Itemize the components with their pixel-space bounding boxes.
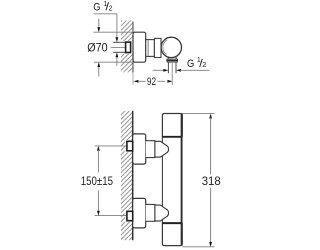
body section A (top view) — [146, 40, 155, 57]
outlet neck — [168, 56, 176, 59]
150 ext line bottom — [95, 215, 127, 217]
bottom cap joint thick line — [162, 222, 182, 224]
wall face extension line for 92 dim — [132, 72, 134, 85]
body section A shading line — [147, 40, 149, 56]
318 ext line top — [182, 112, 214, 114]
G1/2 outlet arrows — [153, 69, 165, 71]
150 dim line upper + arrow up — [97, 146, 100, 151]
outlet center line — [171, 62, 173, 85]
cylinder bottom cap — [162, 223, 182, 246]
outlet pipe — [167, 62, 169, 73]
318 ext line bottom — [182, 246, 214, 248]
bottom union nut (rounded) — [155, 205, 169, 221]
318 dim line upper + arrow up — [209, 114, 212, 119]
cylinder top cap — [162, 114, 182, 137]
G1/2 leader: vertical + arrow down onto pipe — [116, 14, 118, 39]
svg-text:1: 1 — [197, 57, 201, 64]
svg-text:150±15: 150±15 — [81, 175, 113, 188]
inlet pipe stubs (top view) — [113, 41, 125, 43]
cap joint thick line — [162, 136, 182, 138]
150 ext line top — [95, 145, 127, 147]
knob circle (top view) — [161, 37, 181, 57]
svg-text:2: 2 — [202, 62, 206, 69]
dia70 upper arrow (down) — [98, 19, 100, 29]
wall (top view, hatched) — [121, 21, 133, 73]
wall cutout top nut — [125, 140, 133, 152]
150 dim line lower + arrow down — [97, 190, 99, 211]
dia70 lower arrow (up) — [98, 66, 100, 77]
G1/2 leader: horizontal — [94, 13, 117, 15]
svg-text:318: 318 — [202, 174, 221, 188]
wall face line (front view) — [132, 111, 134, 240]
escutcheon (top view) — [133, 32, 146, 62]
svg-text:Ø70: Ø70 — [87, 41, 108, 55]
body section B (top view) — [154, 38, 161, 57]
svg-text:G: G — [93, 2, 100, 14]
G1/2 lower arrow up onto pipe — [116, 56, 118, 66]
outlet nut band (ribbed) — [167, 59, 178, 60]
svg-text:92: 92 — [147, 76, 156, 88]
svg-text:G: G — [187, 58, 194, 70]
wall cutout for inlet pipe — [112, 41, 133, 54]
wall union nut (top view) — [126, 42, 131, 52]
bottom cone — [146, 204, 155, 221]
svg-text:2: 2 — [109, 6, 113, 13]
cylinder right edge (thick) — [181, 114, 183, 246]
extension line, escutcheon bottom — [94, 61, 133, 63]
top union nut (rounded) — [155, 141, 169, 157]
wall cutout bottom nut — [125, 210, 133, 222]
wall (front view, hatched) — [121, 111, 133, 240]
bottom escutcheon (front) — [133, 198, 146, 228]
extension line, escutcheon top — [93, 31, 133, 33]
92 dimension — [134, 80, 139, 83]
318 dim line lower + arrow down — [210, 188, 212, 243]
inlet pipe center dash — [111, 46, 126, 48]
top escutcheon (front) — [133, 134, 146, 164]
knob inner arc — [163, 40, 167, 55]
bottom wall union nut — [127, 211, 133, 220]
wall face line (top view) — [132, 22, 134, 73]
top cone — [146, 141, 155, 158]
cylinder left edge — [161, 137, 163, 223]
top wall union nut — [127, 141, 133, 151]
cylinder body — [162, 114, 182, 246]
